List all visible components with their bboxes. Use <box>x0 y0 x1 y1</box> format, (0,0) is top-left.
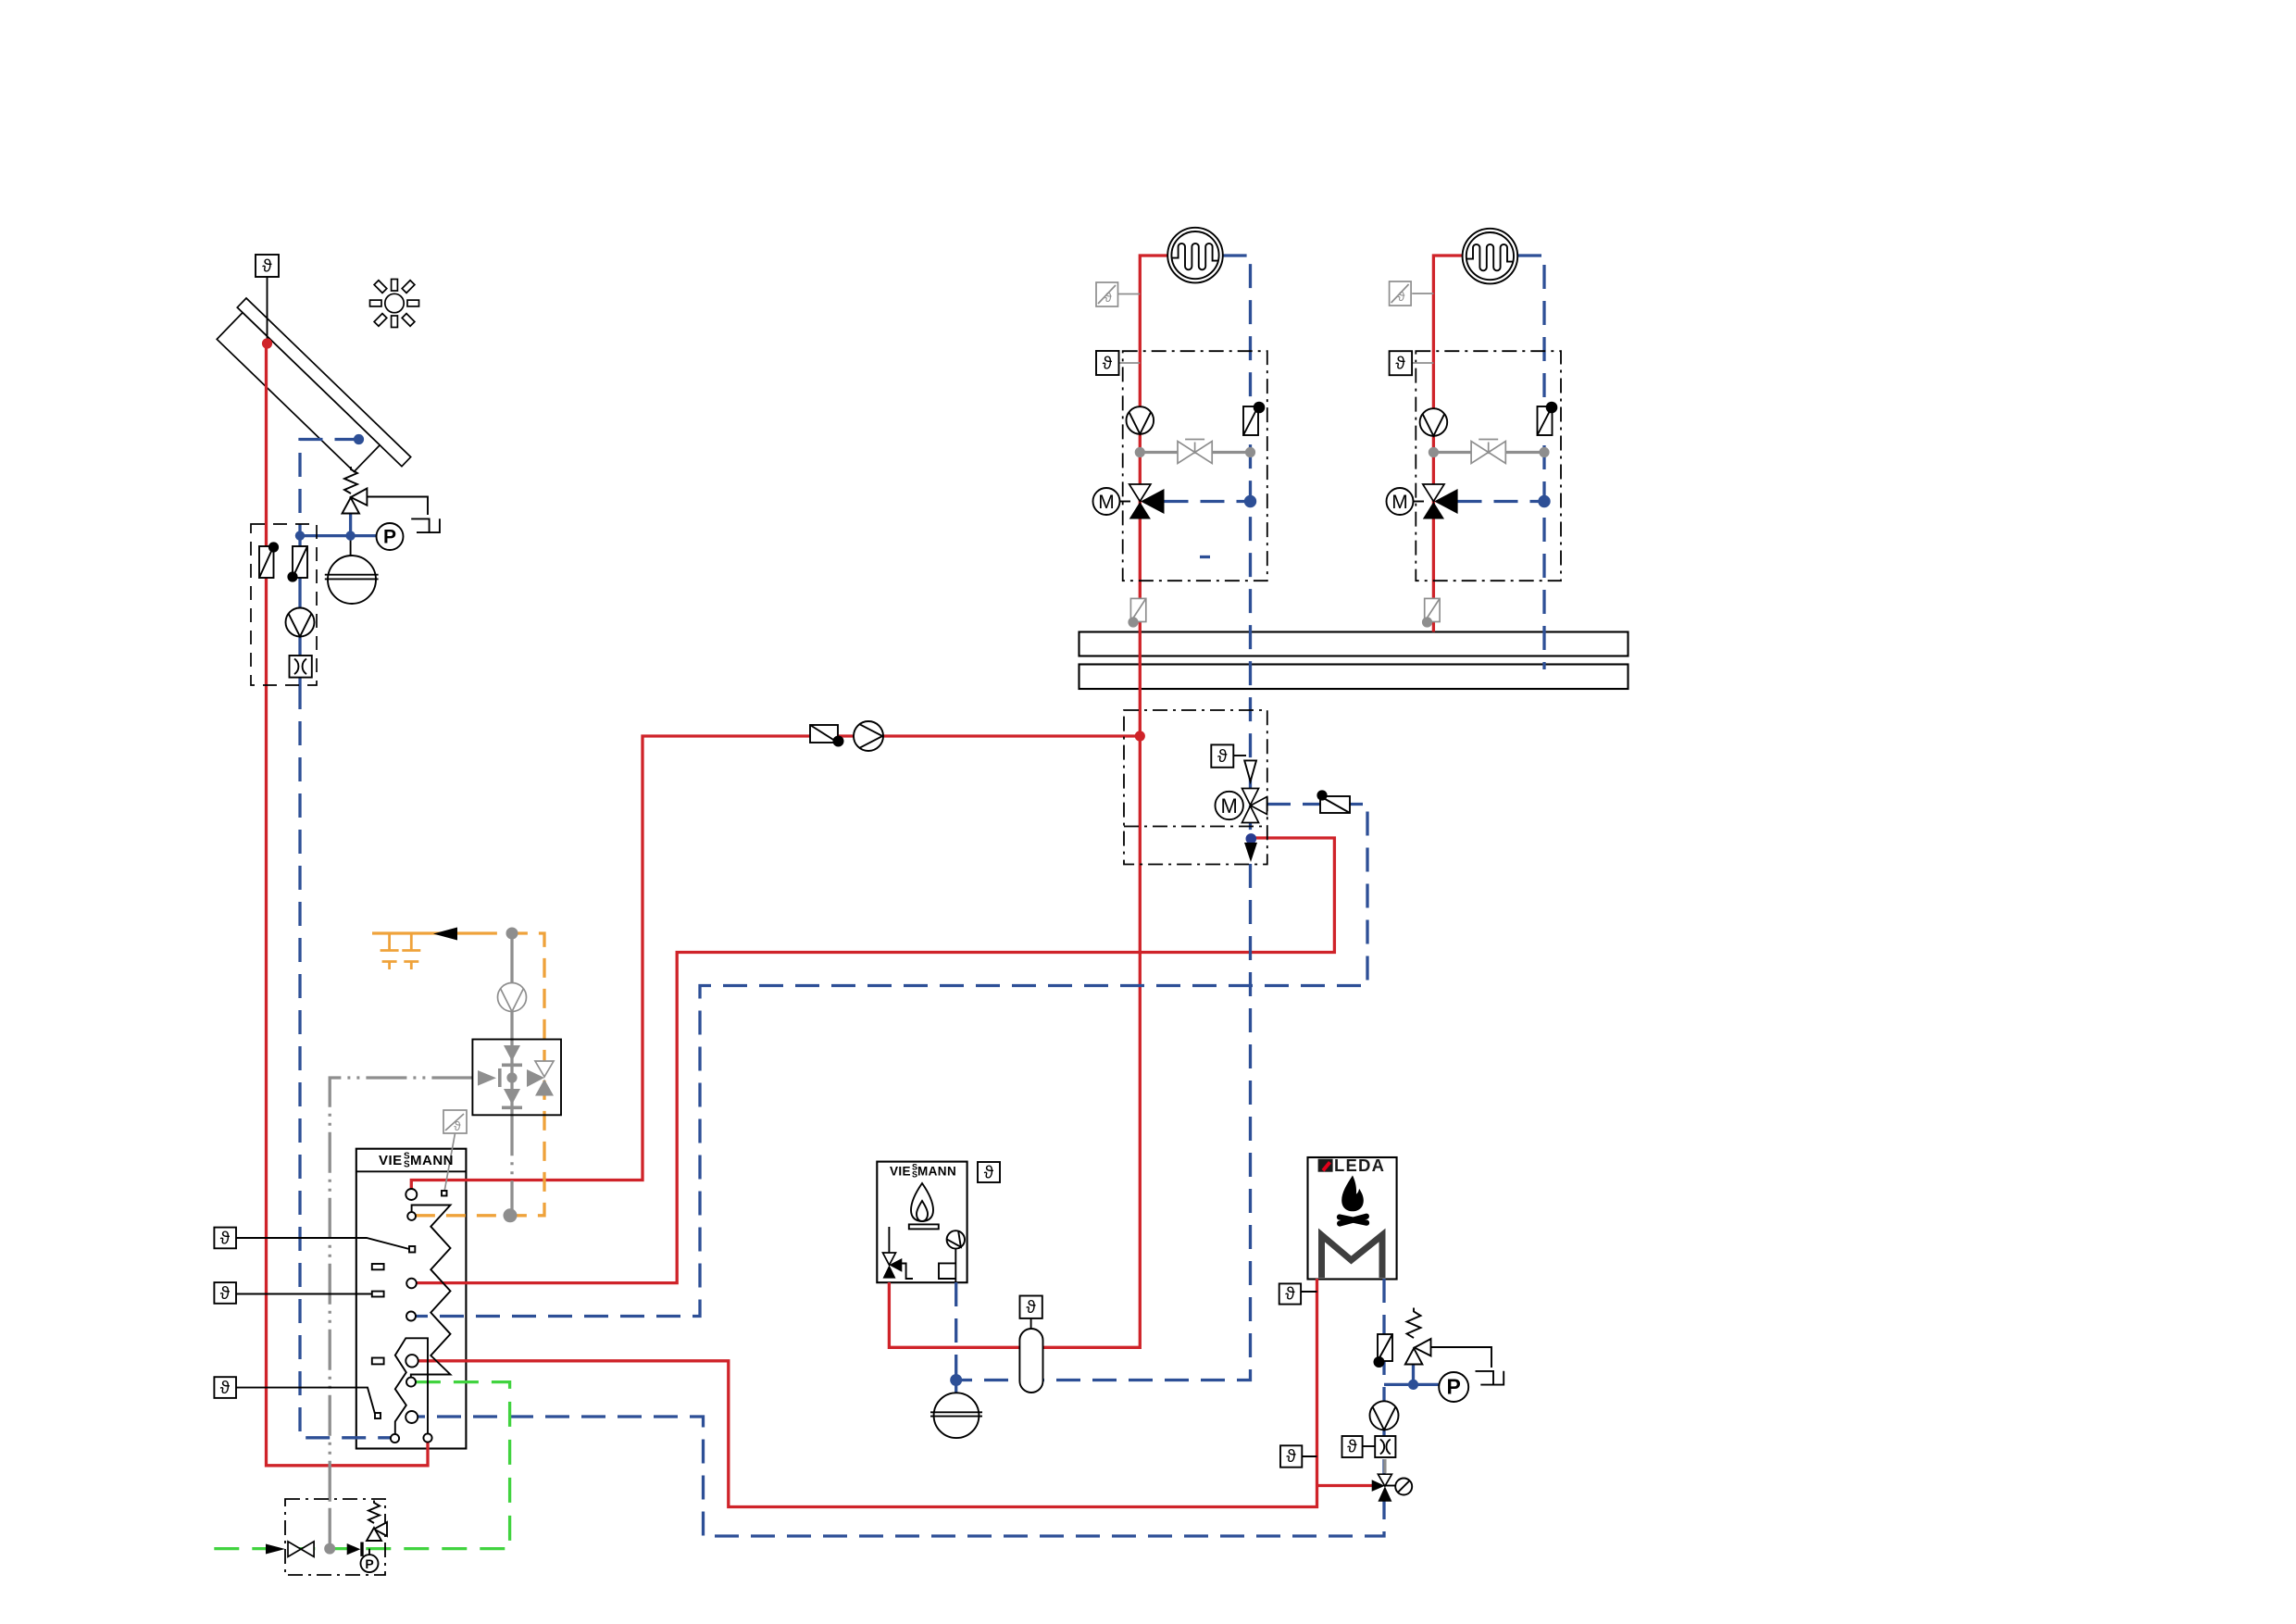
wire boiler expansion vessel stub (blue) <box>955 1380 957 1393</box>
wire tank top port to heating pump line (red) <box>411 736 1140 1189</box>
tank sensor well square S3 <box>375 1413 381 1418</box>
heating expansion vessel <box>930 1393 982 1438</box>
HK2 outdoor sensor box (gray) <box>1390 281 1412 306</box>
tank port HX top (orange) <box>407 1212 416 1220</box>
collector temperature sensor box <box>256 255 279 277</box>
node transfer valve center (gray dot) <box>506 1072 517 1082</box>
filling group check valve <box>347 1543 364 1556</box>
wire HK1 mixing valve branch (blue dashed) <box>1165 500 1251 503</box>
sun symbol <box>370 280 419 328</box>
check valve on mixer branch <box>1316 790 1350 813</box>
solar collector <box>211 298 410 493</box>
stove theta sensor box (pair) <box>1342 1436 1363 1457</box>
tank port stove supply <box>406 1355 418 1367</box>
transfer valve lower stop (gray) <box>502 1089 522 1109</box>
wire gray transfer loop riser <box>510 933 513 1115</box>
tank VIESSMANN logo <box>379 1152 454 1170</box>
mixer theta box <box>1211 744 1233 767</box>
sensor line HK2 outdoor sensor (gray) <box>1412 293 1433 294</box>
sensor line tank top sensor to storage sensor well (gray) <box>444 1133 455 1192</box>
svg-text:ϑ: ϑ <box>220 1379 231 1398</box>
LEDA stove body <box>1308 1157 1397 1280</box>
solar safety valve with spring <box>343 467 368 514</box>
HK1 module box (dash-dot) <box>1123 351 1267 581</box>
HK1 three-way mixing valve <box>1129 484 1165 519</box>
wire HK1 supply riser / boiler supply (red) <box>889 256 1167 1347</box>
tank sensor well square top <box>442 1191 447 1196</box>
solar expansion vessel <box>325 556 379 604</box>
buffer tank body <box>356 1149 467 1449</box>
pressure gauge P (solar) <box>377 523 404 550</box>
stove circuit pump <box>1370 1401 1399 1430</box>
HK2 strainer below module <box>1422 598 1440 627</box>
sensor line mixer theta <box>1233 755 1246 756</box>
transfer valve check (gray) <box>478 1068 502 1087</box>
tank sensor well square S1 <box>409 1246 415 1253</box>
thermostat head symbol <box>1395 1479 1412 1495</box>
svg-text:ϑ: ϑ <box>454 1119 461 1133</box>
HK2 floor heating exchanger <box>1463 229 1518 284</box>
svg-text:P: P <box>1447 1375 1461 1399</box>
filling group inlet arrow <box>266 1544 285 1555</box>
node HK2 return (blue dot) <box>1538 495 1550 507</box>
HK2 circulation pump <box>1420 408 1448 436</box>
sensor line HK1 outdoor sensor (gray) <box>1118 294 1141 295</box>
svg-text:ϑ: ϑ <box>1104 290 1112 305</box>
svg-text:ϑ: ϑ <box>262 257 272 277</box>
svg-text:M: M <box>1221 794 1238 818</box>
node HK2 bypass right (gray dot) <box>1539 447 1549 457</box>
boiler pump mount <box>939 1263 955 1279</box>
node boiler return junction (blue dot) <box>950 1374 962 1386</box>
wire gray control line (dash-dot) to filling group <box>330 1078 472 1509</box>
solar pump station box (dashed) <box>251 524 317 685</box>
theta sensor box 2 (tank) <box>214 1282 236 1304</box>
HK1 outdoor sensor box (gray) <box>1096 282 1118 306</box>
wire station safety branch (blue) <box>300 514 377 536</box>
mixer motor M <box>1216 792 1243 819</box>
node orange/gray junction (gray dot) <box>506 928 518 940</box>
wire wood stove return to tank (blue dashed) <box>418 1279 1384 1536</box>
svg-text:ϑ: ϑ <box>1285 1285 1295 1305</box>
wire solar HX loop (orange solid) <box>372 931 478 934</box>
tank top flow sensor box (gray) <box>443 1110 467 1133</box>
pipe-break marks on orange line <box>381 933 421 969</box>
boiler internal pipe <box>889 1227 955 1282</box>
wire gray loop down to orange junction (dash-dot) <box>510 1115 513 1216</box>
wire stove safety branch (blue) <box>1384 1383 1414 1386</box>
gravity brake on solar return <box>287 546 307 582</box>
svg-text:ϑ: ϑ <box>220 1230 231 1249</box>
tank upper heating coil <box>411 1206 451 1378</box>
HK1 strainer below module <box>1128 598 1145 627</box>
transfer valve upper stop (gray) <box>502 1045 522 1067</box>
check valve on heating supply line <box>810 725 844 747</box>
node collector return (blue dot) <box>354 434 364 444</box>
node HK1 bypass right (gray dot) <box>1245 447 1255 457</box>
svg-text:ϑ: ϑ <box>1103 355 1113 374</box>
wire solar return (blue dashed) collector to station <box>300 440 359 525</box>
node safety group tee (blue dot) <box>345 531 355 540</box>
theta sensor box 1 (tank) <box>214 1228 236 1249</box>
svg-text:VIE: VIE <box>890 1165 911 1179</box>
boiler theta box <box>978 1162 1000 1183</box>
tank port solar supply <box>423 1433 431 1442</box>
wire stove branch to thermostatic valve (red) <box>1317 1484 1373 1487</box>
mixer three-way valve <box>1242 789 1267 823</box>
filling group safety valve with spring <box>367 1501 387 1542</box>
stove safety valve with spring <box>1405 1308 1431 1365</box>
stove fire icon: crossed logs <box>1336 1213 1370 1227</box>
svg-text:LEDA: LEDA <box>1334 1156 1385 1175</box>
hydraulic separator (low-loss header) <box>1019 1329 1042 1393</box>
svg-text:P: P <box>365 1556 373 1571</box>
LEDA logo <box>1318 1156 1386 1175</box>
HK2 module box (dash-dot) <box>1416 351 1561 581</box>
svg-text:ϑ: ϑ <box>1347 1438 1357 1457</box>
boiler three-way valve <box>883 1253 914 1279</box>
svg-text:P: P <box>383 527 396 548</box>
solar flow meter <box>290 656 312 678</box>
svg-text:M: M <box>1391 492 1408 513</box>
tank blind flange A <box>372 1264 384 1269</box>
wire mixer to tank mid port (red) <box>417 838 1335 1283</box>
HK1 circulation pump <box>1127 406 1154 434</box>
node mixer outlet (junction dot) <box>1246 833 1257 844</box>
node HK2 bypass left (gray dot) <box>1429 447 1439 457</box>
boiler pump <box>947 1230 967 1251</box>
svg-text:ϑ: ϑ <box>984 1164 994 1183</box>
HK1 balancing valve (gray) <box>1178 440 1212 464</box>
node collector supply (red dot) <box>262 338 272 348</box>
pressure gauge P (filling group) <box>361 1549 379 1573</box>
tank port stove return <box>406 1411 418 1423</box>
stove safety discharge pipe <box>1431 1347 1492 1368</box>
node filling group (gray dot) <box>324 1543 335 1555</box>
stove water jacket M mark <box>1322 1235 1383 1278</box>
return manifold bar <box>1079 665 1628 690</box>
svg-text:ϑ: ϑ <box>1286 1447 1296 1467</box>
svg-text:MANN: MANN <box>917 1165 956 1179</box>
sensor line HK2 theta <box>1412 362 1433 364</box>
sensor line HK1 theta <box>1119 362 1141 364</box>
HK2 theta box <box>1390 351 1413 375</box>
wire solar supply (red) collector to tank bottom port <box>267 344 429 1466</box>
filling group box (dash-dot) <box>285 1499 385 1575</box>
stove thermostatic mixing valve <box>1372 1459 1396 1502</box>
tank lower solar coil <box>395 1338 428 1433</box>
sensor line collector sensor <box>267 277 268 339</box>
HK1 floor heating exchanger <box>1167 228 1223 283</box>
solar pump <box>286 608 315 637</box>
sensor line stove theta top <box>1301 1291 1316 1293</box>
HK2 balancing valve (gray) <box>1471 440 1505 464</box>
transfer-loop valve box <box>472 1040 561 1116</box>
HK1 gravity brake <box>1243 402 1265 435</box>
stove fire icon: flame <box>1341 1176 1364 1212</box>
separator theta box <box>1020 1296 1042 1318</box>
svg-text:S: S <box>404 1160 410 1170</box>
node HK1 return (blue dot) <box>1244 495 1256 507</box>
svg-text:ϑ: ϑ <box>1026 1298 1036 1318</box>
wire boiler return (blue dashed) <box>955 1282 957 1380</box>
node gray/orange junction (big gray dot) <box>504 1208 518 1222</box>
tank port heating return <box>406 1312 416 1321</box>
HK2 gravity brake <box>1538 402 1558 435</box>
svg-text:ϑ: ϑ <box>1395 355 1405 374</box>
boiler VIESSMANN logo <box>890 1163 956 1180</box>
HK1 theta box <box>1096 351 1119 375</box>
wire solar HX loop (orange dashed) tank port to valve <box>416 933 544 1216</box>
black arrow on orange line <box>433 928 457 941</box>
drain funnel <box>411 518 440 532</box>
drain funnel (stove) <box>1476 1371 1504 1385</box>
mixer module box (dash-dot) <box>1124 710 1267 865</box>
stove flow meter box <box>1375 1436 1395 1457</box>
wire solar return station to tank bottom (blue dashed) <box>300 685 391 1438</box>
sensor line theta1 to tank <box>236 1238 409 1249</box>
sensor line stove flow sensor pair <box>1363 1445 1376 1447</box>
tank port solar return <box>391 1434 399 1443</box>
backflow arrow below mixer <box>1244 843 1257 862</box>
tank port boiler supply <box>406 1279 417 1289</box>
three-way thermic valve on orange riser (gray) <box>527 1061 554 1096</box>
theta sensor box 3 (tank) <box>214 1377 236 1398</box>
sensor line theta2 to tank <box>236 1293 372 1295</box>
sensor line stove theta bottom <box>1302 1455 1316 1457</box>
gravity brake on solar supply <box>259 542 279 578</box>
transfer loop pump (gray) <box>498 983 527 1012</box>
svg-text:ϑ: ϑ <box>1398 289 1405 304</box>
HK1 mixing valve motor M <box>1093 488 1131 515</box>
HK2 three-way mixing valve <box>1423 484 1458 519</box>
wire fresh water line (green dashed) <box>209 1382 510 1549</box>
stove gravity brake <box>1374 1334 1393 1368</box>
sensor line separator theta <box>1030 1318 1032 1329</box>
stove theta box top <box>1279 1283 1301 1304</box>
wire HK1 bypass (gray) <box>1140 451 1250 454</box>
sensor line theta3 to tank <box>236 1388 375 1414</box>
node HK1 bypass left (gray dot) <box>1135 447 1145 457</box>
wire HK1 return riser (blue dashed) <box>1223 256 1251 837</box>
svg-text:M: M <box>1098 492 1115 513</box>
tank port heating supply (top) <box>406 1189 417 1200</box>
svg-text:VIE: VIE <box>379 1153 403 1168</box>
solar safety discharge pipe <box>367 497 428 516</box>
wire HK2 bypass (gray) <box>1433 451 1544 454</box>
wire HK2 return riser (blue dashed) <box>1517 256 1544 669</box>
tank blind flange B <box>372 1292 384 1297</box>
gas boiler body <box>877 1162 967 1283</box>
supply manifold bar <box>1079 632 1628 656</box>
filling group shut-off valve <box>288 1542 314 1557</box>
boiler gas flame <box>909 1183 939 1229</box>
wire solar return inside station (blue) <box>298 524 301 685</box>
HK2 mixing valve motor M <box>1387 488 1425 515</box>
pressure gauge P (stove) <box>1439 1372 1468 1402</box>
svg-text:ϑ: ϑ <box>1217 747 1228 767</box>
node feed pump junction (red dot) <box>1135 731 1145 741</box>
mixer sensor well cone <box>1244 760 1256 781</box>
wire HK2 mixing valve branch (blue dashed) <box>1458 500 1545 503</box>
svg-text:MANN: MANN <box>410 1153 454 1168</box>
tank port fresh water (green) <box>406 1378 416 1387</box>
wire mixer return to boiler junction (blue dashed) <box>956 864 1251 1380</box>
heating circuit feed pump <box>854 721 883 751</box>
node station branch (blue dot) <box>295 531 305 540</box>
wire stray blue dash in HK1 module <box>1200 556 1210 558</box>
stove theta box bottom <box>1280 1445 1302 1467</box>
wire wood stove supply to tank (red) <box>418 1279 1317 1507</box>
svg-text:ϑ: ϑ <box>220 1284 231 1304</box>
tank blind flange C <box>372 1358 384 1365</box>
node stove safety tee (blue dot) <box>1408 1380 1418 1390</box>
wire mixer bypass to tank return port (blue dashed) <box>416 805 1367 1317</box>
wire HK2 supply riser (red) <box>1433 256 1462 632</box>
